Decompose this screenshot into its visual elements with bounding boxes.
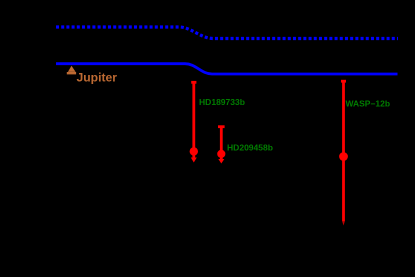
curve: solid blue lower model line [56,64,398,74]
svg-text:WASP−12b: WASP−12b [346,100,391,109]
svg-text:HD209458b: HD209458b [227,144,273,153]
curve: dotted blue upper model line [56,27,398,39]
errorbar: HD209458b [217,126,225,164]
svg-text:Jupiter: Jupiter [77,73,118,85]
svg-text:HD189733b: HD189733b [199,98,245,107]
marker: Jupiter triangle symbol [67,66,76,75]
errorbar: WASP-12b [339,80,348,226]
errorbar: HD189733b [190,81,198,162]
